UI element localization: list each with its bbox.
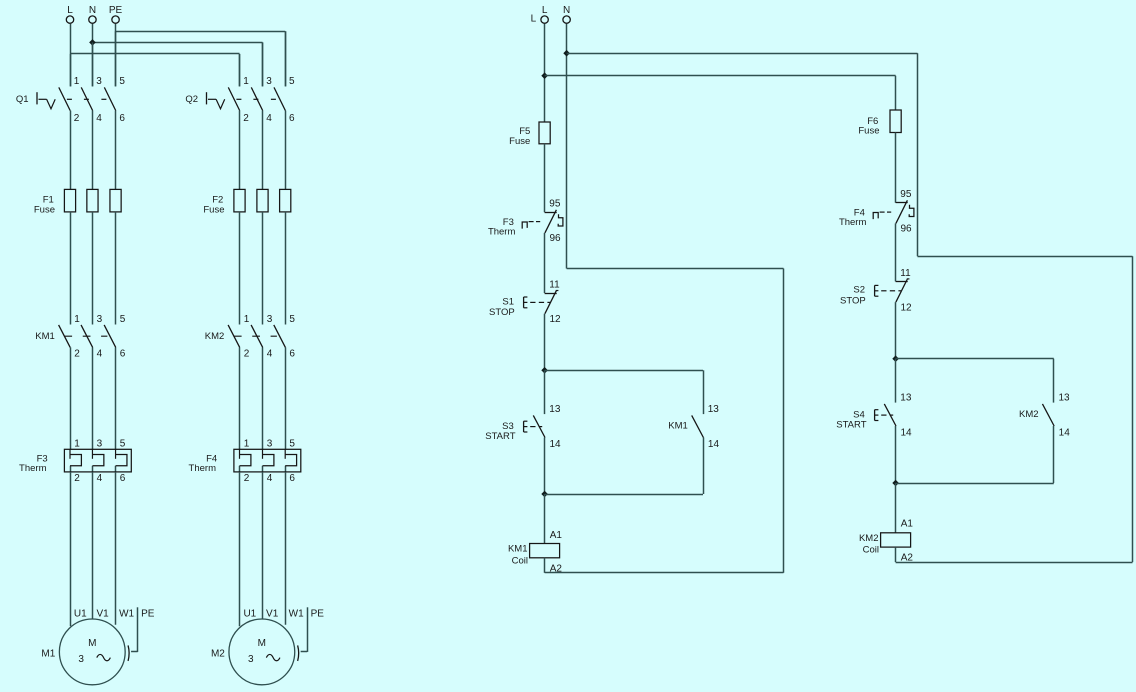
svg-text:M: M bbox=[258, 638, 266, 649]
svg-text:V1: V1 bbox=[96, 609, 109, 620]
svg-text:S2: S2 bbox=[853, 285, 865, 296]
svg-text:1: 1 bbox=[74, 314, 80, 325]
svg-text:2: 2 bbox=[243, 113, 249, 124]
svg-text:S1: S1 bbox=[502, 296, 514, 307]
svg-text:Fuse: Fuse bbox=[203, 205, 224, 216]
svg-text:V1: V1 bbox=[266, 609, 279, 620]
svg-text:KM2: KM2 bbox=[1019, 409, 1039, 420]
svg-text:4: 4 bbox=[267, 473, 273, 484]
svg-text:2: 2 bbox=[74, 349, 80, 360]
svg-text:2: 2 bbox=[244, 349, 250, 360]
svg-text:2: 2 bbox=[244, 473, 250, 484]
svg-text:4: 4 bbox=[97, 349, 103, 360]
svg-text:1: 1 bbox=[243, 76, 249, 87]
svg-text:13: 13 bbox=[708, 404, 720, 415]
svg-text:4: 4 bbox=[96, 113, 102, 124]
svg-text:L: L bbox=[67, 5, 73, 16]
svg-text:4: 4 bbox=[97, 473, 103, 484]
svg-text:5: 5 bbox=[289, 314, 295, 325]
svg-text:6: 6 bbox=[120, 473, 126, 484]
svg-text:PE: PE bbox=[141, 609, 155, 620]
svg-text:3: 3 bbox=[266, 76, 272, 87]
svg-text:KM1: KM1 bbox=[35, 331, 55, 342]
svg-text:11: 11 bbox=[549, 279, 560, 290]
svg-text:3: 3 bbox=[97, 314, 103, 325]
svg-text:4: 4 bbox=[267, 349, 273, 360]
svg-text:Coil: Coil bbox=[863, 545, 879, 556]
svg-text:U1: U1 bbox=[243, 609, 256, 620]
svg-text:95: 95 bbox=[549, 199, 561, 210]
svg-text:Fuse: Fuse bbox=[34, 205, 55, 216]
svg-text:Fuse: Fuse bbox=[509, 136, 530, 147]
svg-text:5: 5 bbox=[289, 438, 295, 449]
svg-text:N: N bbox=[89, 5, 96, 16]
svg-text:2: 2 bbox=[74, 113, 80, 124]
svg-text:5: 5 bbox=[119, 76, 125, 87]
svg-text:Q1: Q1 bbox=[16, 94, 29, 105]
svg-text:Therm: Therm bbox=[189, 463, 217, 474]
svg-text:95: 95 bbox=[900, 189, 912, 200]
svg-text:KM1: KM1 bbox=[668, 421, 688, 432]
svg-text:PE: PE bbox=[311, 609, 325, 620]
svg-text:6: 6 bbox=[120, 349, 126, 360]
svg-text:1: 1 bbox=[244, 438, 250, 449]
svg-text:11: 11 bbox=[900, 268, 911, 279]
svg-text:KM2: KM2 bbox=[205, 331, 225, 342]
svg-text:M2: M2 bbox=[211, 649, 225, 660]
svg-text:1: 1 bbox=[74, 76, 80, 87]
svg-text:14: 14 bbox=[550, 439, 562, 450]
svg-text:96: 96 bbox=[901, 224, 913, 235]
svg-text:2: 2 bbox=[74, 473, 80, 484]
svg-text:14: 14 bbox=[901, 428, 913, 439]
svg-text:3: 3 bbox=[267, 438, 273, 449]
svg-text:Therm: Therm bbox=[19, 463, 47, 474]
svg-text:4: 4 bbox=[266, 113, 272, 124]
svg-text:14: 14 bbox=[708, 439, 720, 450]
svg-text:U1: U1 bbox=[74, 609, 87, 620]
svg-text:Therm: Therm bbox=[839, 217, 867, 228]
svg-text:STOP: STOP bbox=[840, 296, 866, 307]
svg-text:96: 96 bbox=[550, 233, 562, 244]
svg-text:L: L bbox=[531, 14, 537, 25]
svg-text:Q2: Q2 bbox=[185, 94, 198, 105]
svg-text:STOP: STOP bbox=[489, 307, 515, 318]
svg-text:3: 3 bbox=[78, 654, 84, 665]
svg-text:START: START bbox=[836, 419, 866, 430]
svg-text:3: 3 bbox=[267, 314, 273, 325]
svg-text:KM2: KM2 bbox=[859, 533, 879, 544]
svg-text:A1: A1 bbox=[550, 530, 563, 541]
svg-text:6: 6 bbox=[119, 113, 125, 124]
svg-text:5: 5 bbox=[120, 438, 126, 449]
svg-text:3: 3 bbox=[248, 654, 254, 665]
svg-text:1: 1 bbox=[244, 314, 250, 325]
svg-text:A1: A1 bbox=[901, 518, 914, 529]
svg-text:KM1: KM1 bbox=[508, 544, 528, 555]
svg-text:14: 14 bbox=[1059, 428, 1071, 439]
svg-text:Fuse: Fuse bbox=[858, 126, 879, 137]
svg-text:13: 13 bbox=[900, 392, 912, 403]
svg-text:PE: PE bbox=[109, 5, 123, 16]
svg-text:W1: W1 bbox=[289, 609, 304, 620]
svg-text:5: 5 bbox=[289, 76, 295, 87]
svg-text:3: 3 bbox=[97, 438, 103, 449]
svg-text:12: 12 bbox=[901, 302, 913, 313]
svg-text:L: L bbox=[542, 5, 548, 16]
svg-text:13: 13 bbox=[549, 404, 561, 415]
svg-text:M: M bbox=[88, 638, 96, 649]
svg-text:N: N bbox=[563, 5, 570, 16]
svg-text:W1: W1 bbox=[119, 609, 134, 620]
svg-text:13: 13 bbox=[1058, 392, 1070, 403]
svg-text:3: 3 bbox=[96, 76, 102, 87]
svg-text:6: 6 bbox=[289, 473, 295, 484]
svg-text:START: START bbox=[485, 431, 515, 442]
svg-text:6: 6 bbox=[289, 113, 295, 124]
svg-text:5: 5 bbox=[120, 314, 126, 325]
svg-text:Coil: Coil bbox=[512, 556, 528, 567]
svg-text:Therm: Therm bbox=[488, 226, 516, 237]
svg-text:M1: M1 bbox=[41, 649, 55, 660]
svg-text:1: 1 bbox=[74, 438, 80, 449]
svg-text:A2: A2 bbox=[901, 552, 914, 563]
svg-text:12: 12 bbox=[550, 314, 562, 325]
svg-text:6: 6 bbox=[289, 349, 295, 360]
